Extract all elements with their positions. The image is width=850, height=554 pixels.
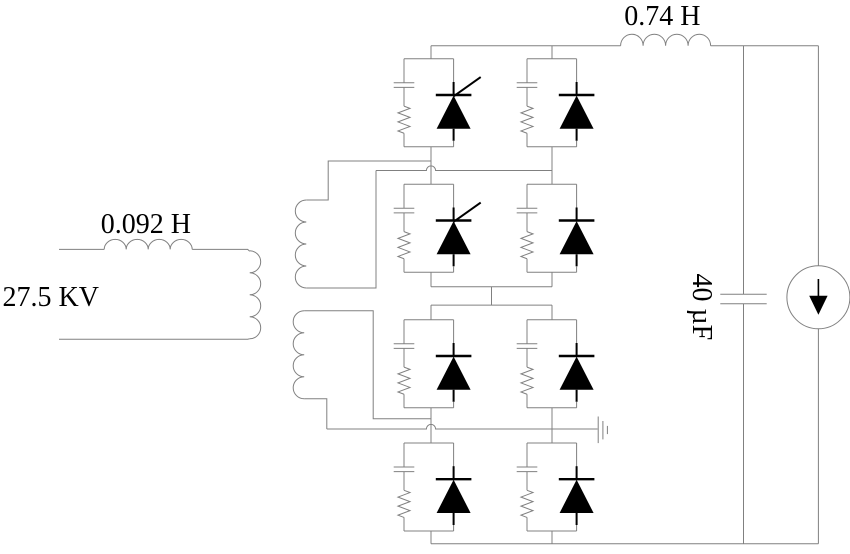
diode (row 4 left) (436, 443, 472, 531)
svg-text:27.5 KV: 27.5 KV (3, 282, 99, 313)
wire top stub left leg (430, 46, 432, 59)
svg-text:0.092 H: 0.092 H (101, 209, 191, 240)
capacitor snubber (row 1 left) (394, 59, 415, 106)
capacitor snubber (row 4 left) (394, 443, 415, 490)
resistor snubber (row 4 left) (398, 490, 410, 531)
wire snubber box top edge (row 2 left) (404, 183, 454, 185)
wire top stub right leg (551, 46, 553, 59)
thyristor (row 1 left) (436, 59, 481, 147)
diode (row 1 right) (559, 59, 595, 147)
wire current source top lead (817, 46, 819, 266)
capacitor snubber (row 2 left) (394, 184, 415, 231)
wire inductor to transformer primary (192, 249, 250, 251)
ground (598, 417, 607, 444)
wire mid bus upper (431, 286, 552, 288)
resistor snubber (row 3 left) (398, 367, 410, 408)
wire snubber box bottom edge (row 4 left) (404, 530, 454, 532)
thyristor (row 2 left) (436, 184, 481, 272)
inductor 0.092 H (104, 239, 192, 249)
svg-text:0.74 H: 0.74 H (624, 1, 700, 32)
wire right leg row2 to mid bus (551, 272, 553, 286)
wire right leg mid bus to row3 (551, 305, 553, 320)
resistor snubber (row 1 left) (398, 106, 410, 147)
wire upper secondary top terminal (306, 161, 431, 200)
resistor snubber (row 2 right) (521, 232, 533, 273)
wire current source bottom lead (817, 329, 819, 544)
transformer upper secondary winding (295, 200, 306, 288)
wire source bottom lead (59, 338, 250, 340)
transformer primary winding (250, 251, 261, 339)
current source (787, 266, 850, 329)
wire capacitor bottom lead (743, 304, 745, 544)
wire left leg row2 to mid bus (430, 272, 432, 286)
wire top bus right section (711, 45, 819, 47)
wire left leg mid bus to row3 (430, 305, 432, 320)
wire right leg row3-row4 (551, 408, 553, 443)
wire snubber box top edge (row 4 right) (527, 442, 577, 444)
svg-text:40 µF: 40 µF (686, 273, 717, 340)
wire snubber box bottom edge (row 1 left) (404, 146, 454, 148)
wire left leg row3-row4 (430, 408, 432, 443)
wire snubber box top edge (row 1 right) (527, 58, 577, 60)
capacitor snubber (row 1 right) (517, 59, 538, 106)
resistor snubber (row 2 left) (398, 232, 410, 273)
capacitor snubber (row 4 right) (517, 443, 538, 490)
wire top bus left section (431, 45, 621, 47)
transformer lower secondary winding (293, 311, 304, 399)
resistor snubber (row 1 right) (521, 106, 533, 147)
wire snubber box top edge (row 3 right) (527, 319, 577, 321)
diode (row 3 right) (559, 320, 595, 408)
wire capacitor top lead (743, 46, 745, 295)
capacitor snubber (row 3 right) (517, 320, 538, 367)
wire snubber box bottom edge (row 2 left) (404, 271, 454, 273)
wire snubber box bottom edge (row 4 right) (527, 530, 577, 532)
wire snubber box top edge (row 3 left) (404, 319, 454, 321)
wire mid bus lower (431, 304, 552, 306)
wire mid link vertical (491, 287, 493, 305)
wire snubber box bottom edge (row 3 right) (527, 407, 577, 409)
wire lower secondary top terminal (304, 311, 431, 419)
wire left leg row4 to bottom bus (430, 531, 432, 544)
diode (row 3 left) (436, 320, 472, 408)
resistor snubber (row 4 right) (521, 490, 533, 531)
wire snubber box bottom edge (row 1 right) (527, 146, 577, 148)
wire snubber box top edge (row 2 right) (527, 183, 577, 185)
wire left leg row1-row2 (430, 147, 432, 185)
wire lower secondary bottom terminal (304, 399, 327, 429)
wire snubber box top edge (row 1 left) (404, 58, 454, 60)
wire snubber box bottom edge (row 2 right) (527, 271, 577, 273)
resistor snubber (row 3 right) (521, 367, 533, 408)
wire right leg row1-row2 (551, 147, 553, 185)
wire snubber box bottom edge (row 3 left) (404, 407, 454, 409)
wire right leg row4 to bottom bus (551, 531, 553, 544)
capacitor snubber (row 3 left) (394, 320, 415, 367)
capacitor 40 uF (720, 294, 766, 304)
diode (row 2 right) (559, 184, 595, 272)
wire source top lead (59, 248, 104, 250)
inductor 0.74 H (621, 34, 711, 46)
wire bottom bus (431, 543, 818, 545)
capacitor snubber (row 2 right) (517, 184, 538, 231)
diode (row 4 right) (559, 443, 595, 531)
wire upper secondary to right leg (with hop) (376, 166, 552, 171)
wire lower secondary to right leg and ground (with hop) (327, 424, 598, 429)
wire snubber box top edge (row 4 left) (404, 442, 454, 444)
wire upper secondary bottom terminal (306, 171, 376, 289)
